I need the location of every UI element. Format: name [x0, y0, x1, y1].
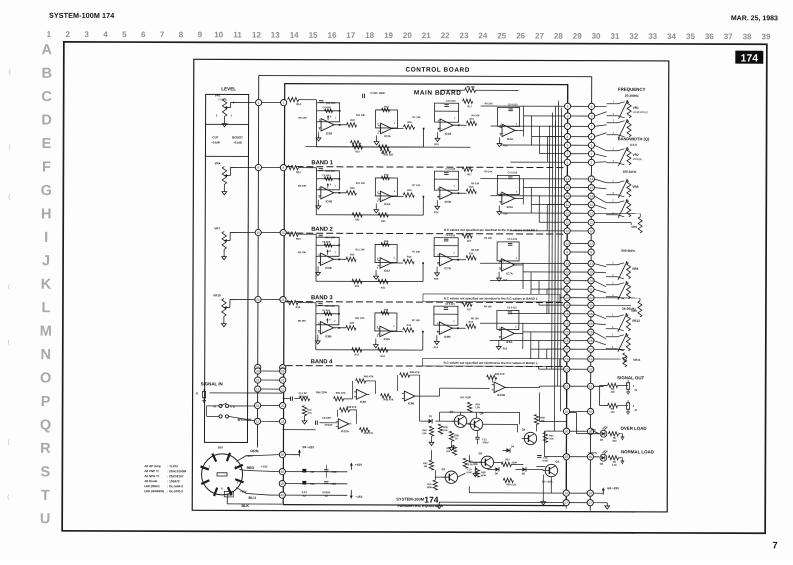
svg-text:VR5: VR5 [631, 225, 637, 229]
svg-text:R17: R17 [467, 105, 472, 108]
svg-text:C19: C19 [310, 483, 315, 486]
wire trunk 5 [548, 126, 551, 314]
node control pin 14 row 10 [588, 193, 594, 199]
svg-text:10: 10 [589, 410, 593, 414]
svg-text:R54 2.2K: R54 2.2K [506, 483, 516, 486]
capacitor C4 IC9B [444, 307, 448, 309]
svg-text:T: T [41, 488, 50, 504]
wire connector link row 32 [566, 430, 590, 432]
svg-text:3: 3 [567, 114, 569, 118]
transistor Q4 [524, 432, 536, 444]
svg-text:R19: R19 [434, 278, 439, 281]
feedback loop IC1B [435, 103, 459, 122]
resistor R12 [380, 149, 390, 153]
wire weave vertical [554, 263, 556, 313]
svg-text:23: 23 [565, 262, 569, 266]
svg-text:+15V: +15V [261, 465, 268, 469]
node main board pin 12 row 12 [564, 210, 570, 216]
resistor R36 [438, 424, 442, 434]
svg-text:IC9A: IC9A [360, 400, 366, 404]
wire trunk 3 [551, 113, 554, 370]
wire band4 bus [283, 429, 316, 431]
ground q area [542, 499, 544, 502]
wire connector link row 14 [567, 230, 591, 232]
svg-text:R19: R19 [434, 346, 439, 349]
svg-text:R22: R22 [355, 150, 360, 153]
wire out IC4A [391, 195, 403, 197]
svg-text:VR6: VR6 [632, 185, 638, 189]
op-amp IC5B [440, 187, 453, 199]
svg-text:VR7: VR7 [214, 226, 220, 230]
capacitor C20 [324, 481, 328, 483]
svg-text:21: 21 [589, 287, 593, 291]
ground [436, 200, 438, 203]
svg-text:13: 13 [590, 177, 594, 181]
chassis box CHB [224, 491, 233, 497]
svg-text:S: S [40, 464, 50, 480]
svg-text:R15: R15 [469, 118, 474, 121]
svg-text:11: 11 [590, 203, 594, 207]
capacitor C4 IC5B [444, 172, 448, 174]
svg-text:11: 11 [233, 30, 242, 39]
svg-text:R18: R18 [384, 240, 389, 243]
wire VR7 tap [261, 232, 280, 234]
wire to connector [500, 212, 564, 214]
svg-text:19: 19 [589, 303, 593, 307]
svg-text:R7 10K: R7 10K [412, 319, 420, 322]
capacitor C14 [290, 396, 292, 400]
resistor R15 row0 [467, 121, 477, 125]
svg-text:BANDWIDTH (Q): BANDWIDTH (Q) [618, 136, 650, 141]
wire weave vertical [522, 263, 524, 289]
svg-text:R20: R20 [350, 322, 355, 325]
svg-text:R20: R20 [350, 253, 355, 256]
svg-text:R.C values not specified are i: R.C values not specified are identical t… [443, 361, 538, 365]
node control pin 9 row 16 [588, 249, 594, 255]
wire pots vr11 [594, 348, 625, 350]
wire weave vertical [546, 137, 548, 163]
svg-text:-: - [503, 329, 504, 332]
node main board pin 12 row 14 [564, 228, 570, 234]
svg-text:IC9B: IC9B [444, 335, 450, 339]
wire connector link row 34 [566, 492, 590, 494]
svg-text:VR4: VR4 [215, 161, 221, 165]
resistor R4 [608, 403, 618, 407]
resistor R22 BAND 3 [352, 348, 362, 352]
svg-text:13: 13 [565, 357, 569, 361]
node edge row 33 [279, 402, 285, 408]
potentiometer VR5 [638, 217, 642, 233]
wire weave vertical [530, 187, 532, 213]
op-amp IC7B [440, 253, 453, 265]
wire connector link row 19 [567, 280, 591, 282]
svg-text:IC5A: IC5A [507, 205, 513, 209]
svg-text:C4 0.015: C4 0.015 [446, 168, 456, 171]
resistor R51 [429, 460, 433, 470]
svg-text:R6 10K: R6 10K [471, 317, 479, 320]
svg-text:39: 39 [762, 32, 771, 41]
band separator BAND 4 [286, 365, 565, 368]
svg-text:: 2SC1815Y: : 2SC1815Y [167, 474, 183, 478]
wire VR1 tap [262, 102, 281, 104]
svg-text:0.01: 0.01 [302, 490, 308, 494]
svg-text:R7 10K: R7 10K [413, 116, 421, 119]
node control pin 2 row 7 [588, 159, 594, 165]
wire connector link row 5 [567, 144, 591, 146]
svg-text:11: 11 [281, 387, 285, 391]
wire out IC8A [391, 330, 403, 332]
svg-text:30: 30 [592, 32, 601, 41]
svg-text:VR10: VR10 [213, 293, 221, 297]
svg-text:B6 +22V: B6 +22V [607, 486, 619, 490]
feedback loop IC6A [375, 244, 397, 262]
svg-text:D: D [41, 113, 52, 129]
node main board pin 25 row 25 [564, 329, 570, 335]
svg-text:RED: RED [591, 429, 596, 432]
svg-text:36: 36 [705, 32, 714, 41]
wire connector link row 33 [566, 456, 590, 458]
svg-text:14: 14 [566, 194, 570, 198]
jack J3 [627, 403, 630, 410]
wire trunk 4 [554, 121, 555, 432]
op-amp IC5A [502, 192, 515, 204]
svg-text:IC2B: IC2B [326, 131, 332, 135]
capacitor C13 [315, 421, 317, 425]
feedback loop IC9B [434, 306, 458, 325]
wire out IC4B [334, 192, 346, 194]
svg-text:R11 10K: R11 10K [356, 182, 366, 185]
svg-text:37: 37 [724, 32, 733, 41]
resistor R17 row0 [463, 99, 473, 103]
svg-text:-: - [382, 125, 383, 128]
node control pin 16 row 34 [587, 490, 593, 496]
resistor R21 BAND 2 [378, 279, 388, 283]
wire gnd q [542, 475, 544, 499]
svg-text:+22V: +22V [246, 454, 253, 458]
svg-text:10K: 10K [443, 429, 448, 432]
svg-text:: GL-5AR-2: : GL-5AR-2 [167, 484, 183, 488]
wire weave h [547, 204, 564, 206]
resistor R3 [608, 383, 618, 387]
resistor R-fb IC3A [382, 108, 390, 112]
svg-text:O: O [40, 371, 51, 387]
wire weave vertical [554, 106, 556, 162]
wire row30 link [544, 430, 563, 432]
svg-text:-: - [441, 256, 442, 259]
ground [499, 137, 501, 140]
resistor R54 [503, 478, 513, 482]
resistor R21 BAND 1 [378, 213, 388, 217]
svg-text:Q2: Q2 [479, 451, 483, 455]
svg-text:12: 12 [589, 229, 593, 233]
wire to connector [500, 358, 564, 360]
svg-text:-: - [441, 324, 442, 327]
svg-text:12: 12 [589, 242, 593, 246]
potentiometer VR6 gang A [606, 182, 617, 184]
svg-text:R44 47K: R44 47K [410, 371, 420, 374]
node main board pin 5 row 5 [564, 142, 570, 148]
resistor R44 feedback [397, 375, 399, 391]
wire connector link row 2 [568, 115, 592, 117]
wire control bus top [259, 76, 592, 77]
svg-text:(: ( [8, 285, 10, 291]
svg-text:23: 23 [565, 367, 569, 371]
wire op-amp out [515, 332, 523, 334]
wire connector link row 20 [567, 288, 591, 290]
node main board pin 13 row 28 [564, 356, 570, 362]
svg-text:32: 32 [629, 32, 638, 41]
svg-text:R19: R19 [434, 211, 439, 214]
svg-text:174: 174 [741, 53, 759, 65]
op-amp IC4A [380, 191, 391, 201]
svg-text:-: - [382, 193, 383, 196]
node control pin 23 row 29 [588, 366, 594, 372]
wire weave vertical [522, 179, 524, 205]
node main board pin 30 row 32 [563, 428, 569, 434]
wire to connector [480, 262, 564, 264]
svg-text:21: 21 [422, 31, 431, 40]
wire connector link row 24 [567, 322, 591, 324]
svg-text:1/50V: 1/50V [482, 441, 489, 444]
svg-text:2.2K: 2.2K [468, 463, 473, 466]
svg-text:7: 7 [567, 124, 569, 128]
node main board pin 9 row 16 [564, 249, 570, 255]
svg-text:R9 10K: R9 10K [485, 102, 493, 105]
feedback loop IC4A [375, 178, 397, 196]
svg-text:23: 23 [589, 262, 593, 266]
svg-text:-: - [358, 391, 359, 394]
svg-text:19: 19 [384, 31, 393, 40]
svg-text:47/16V: 47/16V [325, 424, 333, 427]
wire to connector [490, 339, 564, 341]
svg-text:LEVEL: LEVEL [221, 86, 236, 91]
svg-text:22: 22 [565, 296, 569, 300]
wire to connector [490, 279, 564, 281]
node main board pin 16 row 34 [563, 490, 569, 496]
svg-text:C5 0.015: C5 0.015 [508, 171, 518, 174]
svg-text:31: 31 [611, 32, 620, 41]
svg-text:: TL072: : TL072 [167, 464, 178, 468]
potentiometer VR7 gang A [606, 264, 617, 266]
svg-text:VR12: VR12 [632, 319, 640, 323]
node control pin 13 row 28 [588, 356, 594, 362]
svg-text:27: 27 [565, 347, 569, 351]
svg-text:G: G [41, 183, 52, 199]
svg-text:L: L [41, 300, 50, 316]
svg-text:100K(B): 100K(B) [218, 98, 227, 101]
svg-text:1M: 1M [424, 465, 427, 468]
op-amp IC10A [338, 419, 349, 429]
svg-text:LED (RED): LED (RED) [144, 484, 159, 488]
svg-text:R7 10K: R7 10K [412, 251, 420, 254]
feedback loop IC2B [317, 103, 340, 122]
node control pin 15 row 30 [588, 383, 594, 389]
resistor R16 row0 [404, 125, 415, 129]
svg-text:22: 22 [441, 31, 450, 40]
wire feedback bottom row0 [316, 146, 423, 148]
node control pin 20 row 18 [588, 269, 594, 275]
wire feedback bottom BAND 1 [316, 214, 423, 216]
node board edge row 1 [281, 99, 287, 105]
node bus row 30 [255, 368, 261, 374]
svg-text:R53: R53 [505, 458, 510, 461]
node power row 43 [279, 492, 285, 498]
wire red [239, 469, 246, 470]
node main board pin 19 row 22 [564, 302, 570, 308]
resistor R42 feedback [352, 381, 354, 399]
feedback loop IC4B [316, 171, 339, 190]
svg-text:1: 1 [47, 30, 52, 39]
svg-text:R8 10K: R8 10K [466, 86, 475, 89]
node control pin 12 row 12 [588, 210, 594, 216]
svg-text:R9 10K: R9 10K [484, 237, 492, 240]
wire out IC6B [334, 258, 346, 260]
node main board pin 14 row 10 [564, 193, 570, 199]
wire connector link row 7 [567, 161, 591, 163]
wire trunk 1 [557, 101, 560, 387]
wire to connector [500, 296, 564, 298]
svg-text:17: 17 [565, 501, 569, 505]
svg-text:100B[100(s)]: 100B[100(s)] [633, 110, 648, 114]
potentiometer VR9 [638, 301, 642, 317]
svg-text:2: 2 [591, 161, 593, 165]
svg-text:34: 34 [667, 32, 676, 41]
wire main board right edge [566, 85, 567, 506]
wire connector link row 25 [567, 331, 591, 333]
svg-text:Q5: Q5 [450, 410, 454, 414]
svg-text:R22: R22 [355, 353, 360, 356]
svg-text:SYSTEM-100M 174: SYSTEM-100M 174 [49, 11, 114, 20]
svg-text:R45 47K: R45 47K [495, 373, 505, 376]
registration marks [7, 70, 11, 501]
svg-text:-: - [406, 393, 407, 396]
svg-text:R18: R18 [384, 173, 389, 176]
capacitor C-fb IC4B [319, 168, 323, 170]
svg-text:-: - [503, 126, 504, 129]
svg-text:15K: 15K [422, 432, 427, 435]
feedback loop IC6B [316, 237, 339, 256]
svg-text:IC10B: IC10B [497, 393, 505, 397]
wire weave vertical [530, 272, 532, 298]
wire weave vertical [530, 332, 532, 359]
svg-text:R49 47K: R49 47K [364, 432, 374, 435]
svg-text:33: 33 [281, 404, 285, 408]
wire weave vertical [538, 280, 540, 305]
svg-text:GREEN: GREEN [588, 452, 597, 455]
svg-text:5: 5 [122, 30, 127, 39]
node control pin 15 row 24 [588, 320, 594, 326]
wire pots vr9 [594, 297, 640, 299]
wire connector link row 15 [567, 242, 591, 244]
svg-text:6: 6 [141, 30, 146, 39]
svg-text:BAND 1: BAND 1 [311, 160, 333, 166]
node bus row 33 [254, 402, 260, 408]
svg-text:20: 20 [589, 270, 593, 274]
resistor R20 BAND 2 [346, 257, 356, 261]
svg-text:IC7A: IC7A [506, 271, 512, 275]
resistor R16 BAND 2 [403, 259, 414, 263]
potentiometer VR12 gang B [606, 336, 617, 338]
svg-text:(: ( [8, 145, 10, 151]
wire row link [261, 420, 280, 422]
svg-text:5: 5 [567, 143, 569, 147]
svg-text:B4 +22R: B4 +22R [460, 395, 470, 399]
svg-text:Q4: Q4 [522, 427, 526, 431]
resistor R53 [501, 462, 511, 466]
ground [317, 266, 319, 269]
resistor R-in BAND 1 [287, 165, 298, 169]
svg-text:R14: R14 [296, 103, 301, 106]
svg-text:SIGNAL IN: SIGNAL IN [201, 381, 223, 386]
wire bypass [229, 416, 258, 421]
svg-text:R22: R22 [355, 218, 360, 221]
svg-text:17: 17 [346, 31, 355, 40]
svg-text:R11 10K: R11 10K [356, 114, 366, 117]
svg-text:+15V: +15V [355, 463, 363, 467]
capacitor C18 [324, 469, 328, 471]
ground [498, 340, 500, 343]
node edge row 32 [279, 418, 285, 424]
wire to connector [500, 144, 564, 146]
transistor Q2 [481, 456, 493, 468]
svg-text:X2: X2 [303, 494, 307, 498]
svg-text:All NPN Tr: All NPN Tr [144, 474, 160, 478]
svg-text:H: H [41, 206, 52, 222]
node control pin 17 row 35 [587, 500, 593, 506]
svg-text:C13 BP: C13 BP [322, 417, 331, 420]
wire connector link row 35 [566, 502, 590, 504]
resistor R17 BAND 1 [462, 167, 472, 171]
wire r2 end [618, 457, 622, 459]
LED D2 [600, 430, 607, 437]
wire r12 run [305, 146, 350, 148]
resistor R2 [608, 456, 618, 460]
wire to connector [524, 115, 565, 117]
wire connector link row 13 [567, 221, 591, 223]
node control pin 10 row 9 [588, 184, 594, 190]
potentiometer VR1 [215, 93, 256, 127]
svg-text:R19: R19 [434, 143, 439, 146]
svg-text:-: - [381, 328, 382, 331]
svg-text:C6 R09: C6 R09 [323, 106, 332, 109]
ground right bottom [606, 503, 608, 506]
svg-text:R41 47K: R41 47K [336, 392, 346, 395]
wire blk [226, 494, 228, 503]
wire feedback bottom BAND 2 [316, 280, 423, 282]
ground c15 [474, 466, 476, 470]
svg-text:30: 30 [256, 369, 260, 373]
wire stage a [436, 420, 455, 422]
svg-text:2.2K: 2.2K [612, 464, 617, 467]
svg-text:23: 23 [589, 367, 593, 371]
svg-text:(: ( [8, 340, 10, 346]
diode D6 [495, 467, 499, 471]
svg-text:IC1B: IC1B [445, 132, 451, 136]
ground [375, 203, 377, 206]
wire weave h [548, 136, 565, 138]
node control pin 3 row 2 [588, 113, 594, 119]
svg-text:R11 10K: R11 10K [355, 317, 365, 320]
wire input row0 [299, 99, 317, 101]
node control pin 12 row 15 [588, 240, 594, 246]
op-amp IC6A [380, 258, 391, 268]
svg-text:R16: R16 [407, 256, 412, 259]
svg-text:B16: B16 [218, 445, 224, 449]
svg-text:R15: R15 [469, 252, 474, 255]
ground [318, 132, 320, 135]
op-amp IC8B [320, 322, 333, 334]
svg-text:21: 21 [565, 287, 569, 291]
